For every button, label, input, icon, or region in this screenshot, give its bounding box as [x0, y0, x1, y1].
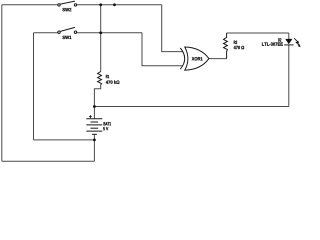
label SW1 [62, 36, 71, 39]
wire left vertical outer [1, 5, 3, 161]
wire SW1 left to corner [34, 32, 58, 34]
label D2 [278, 38, 281, 41]
wire return bottom horizontal [94, 106, 288, 108]
label BAT1 value 5V [103, 127, 108, 130]
label XOR1 [192, 57, 203, 60]
label BAT1 [104, 122, 111, 125]
label R1 value 470 kOhm [106, 80, 120, 83]
label R2 value 470 Ohm [234, 46, 244, 49]
xor gate XOR1 [180, 47, 209, 70]
wire LED cathode down [288, 45, 290, 107]
resistor R1 [98, 72, 102, 86]
label SW2 [62, 8, 71, 11]
resistor R2 [224, 33, 228, 59]
wire SW1 right to corner [77, 32, 142, 34]
switch SW1 [58, 27, 77, 33]
wire corner down to XOR input A [162, 5, 183, 52]
node junction SW1 wire [99, 31, 102, 34]
battery plus sign [89, 115, 92, 118]
label D2 part LTL-307EE [262, 42, 283, 45]
wire top left horizontal [2, 4, 58, 6]
wire bottom horizontal [2, 160, 95, 162]
label R2 [234, 41, 237, 44]
node junction battery positive [93, 105, 96, 108]
led D2 [284, 39, 293, 45]
led D2 emission arrows [294, 38, 300, 47]
wire SW2 right to corner [77, 4, 162, 6]
wire R2 top to corner [227, 32, 289, 34]
switch SW2 [58, 1, 77, 6]
wire SW1 left vertical down [33, 33, 35, 140]
node junction top wire A [99, 3, 102, 6]
label R1 [106, 75, 109, 78]
wire bottom inner horizontal [34, 139, 95, 141]
node junction top wire B [113, 3, 116, 6]
battery BAT1 [86, 119, 102, 135]
wire R1 bottom jog [94, 85, 100, 107]
wire vertical to R1 [100, 5, 102, 72]
wire battery negative vertical [93, 134, 95, 161]
wire battery positive vertical [93, 107, 95, 119]
node junction battery negative [93, 139, 96, 142]
wire corner down to LED anode [288, 33, 290, 39]
wire XOR output to R2 [209, 58, 227, 60]
wire corner down to XOR input B [142, 33, 183, 66]
